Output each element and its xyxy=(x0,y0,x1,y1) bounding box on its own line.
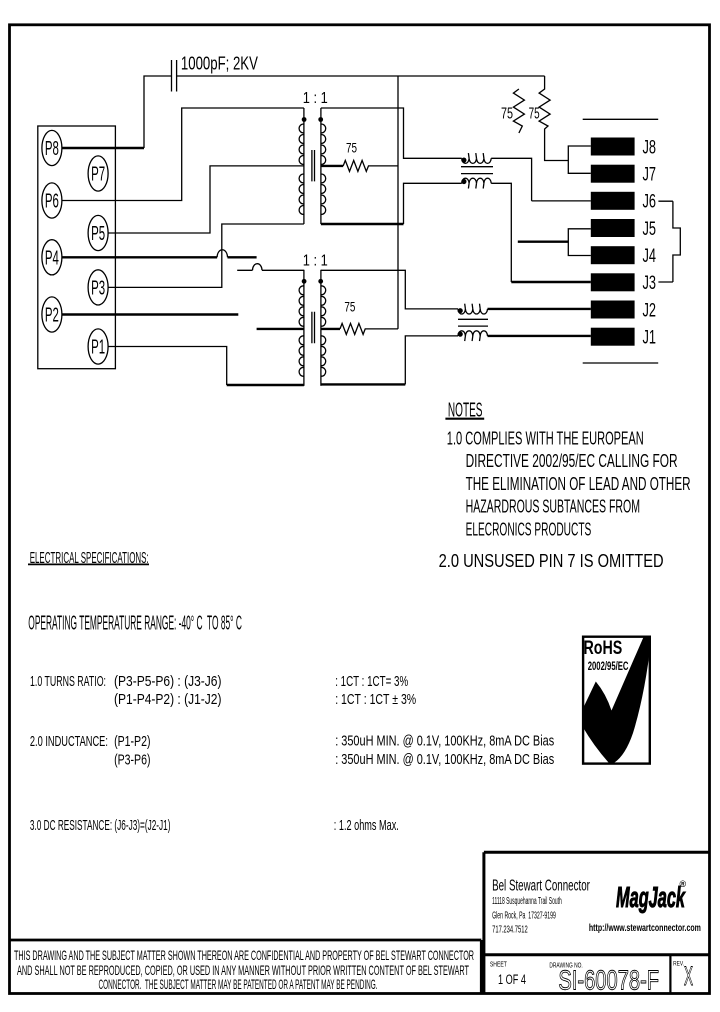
svg-text:(P1-P2): (P1-P2) xyxy=(114,734,150,750)
svg-text:: 1.2 ohms Max.: : 1.2 ohms Max. xyxy=(334,818,399,834)
svg-text:P4: P4 xyxy=(45,247,59,269)
svg-text:REV.: REV. xyxy=(673,961,684,968)
svg-text:J2: J2 xyxy=(643,300,657,321)
svg-text:P8: P8 xyxy=(45,138,59,160)
svg-text:J4: J4 xyxy=(643,246,657,267)
svg-text:MagJack: MagJack xyxy=(616,882,686,914)
svg-text:P2: P2 xyxy=(45,305,59,327)
svg-text:THE ELIMINATION OF LEAD AND OT: THE ELIMINATION OF LEAD AND OTHER xyxy=(466,473,691,494)
svg-text:OPERATING TEMPERATURE RANGE: -: OPERATING TEMPERATURE RANGE: -40° C TO 8… xyxy=(28,613,242,635)
svg-text:717.234.7512: 717.234.7512 xyxy=(492,924,528,935)
svg-text:SHEET: SHEET xyxy=(490,960,507,969)
svg-text:THIS DRAWING AND THE SUBJECT M: THIS DRAWING AND THE SUBJECT MATTER SHOW… xyxy=(14,947,474,963)
svg-text:J7: J7 xyxy=(643,165,657,186)
svg-text:2002/95/EC: 2002/95/EC xyxy=(588,659,629,673)
svg-text:J8: J8 xyxy=(643,137,657,158)
svg-text:SI-60078-F: SI-60078-F xyxy=(558,964,659,995)
svg-text:HAZARDROUS SUBTANCES FROM: HAZARDROUS SUBTANCES FROM xyxy=(466,496,640,517)
svg-text:75: 75 xyxy=(501,105,513,122)
svg-text:J1: J1 xyxy=(643,328,657,349)
svg-text:J5: J5 xyxy=(643,219,657,240)
svg-text:P7: P7 xyxy=(91,164,105,186)
svg-text:1 : 1: 1 : 1 xyxy=(303,252,328,269)
svg-text:X: X xyxy=(684,961,693,991)
svg-text:J3: J3 xyxy=(643,273,657,294)
svg-text:(P3-P5-P6) : (J3-J6): (P3-P5-P6) : (J3-J6) xyxy=(114,674,222,690)
svg-text:: 350uH MIN. @ 0.1V, 100KHz, 8: : 350uH MIN. @ 0.1V, 100KHz, 8mA DC Bias xyxy=(335,734,554,750)
svg-text:http://www.stewartconnector.co: http://www.stewartconnector.com xyxy=(589,923,701,934)
svg-text:P1: P1 xyxy=(91,337,105,359)
svg-text:75: 75 xyxy=(529,105,540,122)
svg-text:Glen Rock, Pa 17327-9199: Glen Rock, Pa 17327-9199 xyxy=(492,910,556,921)
svg-text:: 1CT : 1CT ± 3%: : 1CT : 1CT ± 3% xyxy=(335,692,416,708)
svg-text:Bel Stewart Connector: Bel Stewart Connector xyxy=(492,877,590,894)
svg-text:P5: P5 xyxy=(91,223,105,245)
svg-text:ELECRONICS PRODUCTS: ELECRONICS PRODUCTS xyxy=(466,518,592,539)
svg-text:1 : 1: 1 : 1 xyxy=(303,90,328,107)
svg-text:1 OF 4: 1 OF 4 xyxy=(498,972,526,987)
svg-text:®: ® xyxy=(680,879,687,889)
svg-text:11118 Susquehanna Trail South: 11118 Susquehanna Trail South xyxy=(492,896,562,907)
svg-text:1.0 TURNS RATIO:: 1.0 TURNS RATIO: xyxy=(30,674,106,690)
svg-text:2.0 UNSUSED PIN 7 IS OMITTED: 2.0 UNSUSED PIN 7 IS OMITTED xyxy=(439,550,664,571)
svg-text:J6: J6 xyxy=(643,192,657,213)
svg-text:1.0 COMPLIES WITH THE EUROPEAN: 1.0 COMPLIES WITH THE EUROPEAN xyxy=(447,428,644,449)
svg-text:1000pF; 2KV: 1000pF; 2KV xyxy=(181,53,258,73)
svg-text:: 350uH MIN. @ 0.1V, 100KHz, 8: : 350uH MIN. @ 0.1V, 100KHz, 8mA DC Bias xyxy=(335,752,554,768)
svg-text:RoHS: RoHS xyxy=(584,637,623,659)
svg-text:(P1-P4-P2) : (J1-J2): (P1-P4-P2) : (J1-J2) xyxy=(114,692,222,708)
svg-text:: 1CT : 1CT= 3%: : 1CT : 1CT= 3% xyxy=(335,674,408,690)
svg-text:DIRECTIVE 2002/95/EC CALLING F: DIRECTIVE 2002/95/EC CALLING FOR xyxy=(466,450,678,471)
svg-text:CONNECTOR. THE SUBJECT MATTER: CONNECTOR. THE SUBJECT MATTER MAY BE PAT… xyxy=(99,976,378,992)
svg-text:75: 75 xyxy=(344,298,355,314)
svg-text:2.0 INDUCTANCE:: 2.0 INDUCTANCE: xyxy=(30,734,108,750)
svg-text:P6: P6 xyxy=(45,191,59,213)
svg-text:P3: P3 xyxy=(91,277,105,299)
svg-text:(P3-P6): (P3-P6) xyxy=(114,752,150,768)
svg-text:75: 75 xyxy=(346,140,357,156)
svg-text:3.0 DC RESISTANCE: (J6-J3)=(J2: 3.0 DC RESISTANCE: (J6-J3)=(J2-J1) xyxy=(30,818,171,834)
